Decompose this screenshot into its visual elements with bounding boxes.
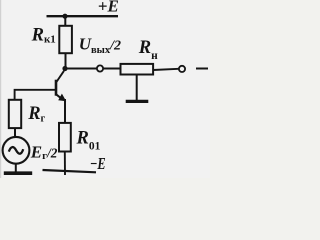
resistor Rn: [121, 64, 154, 75]
resistor Rg: [9, 100, 21, 128]
wire Rn to right terminal: [153, 69, 178, 70]
source tilde: [9, 147, 23, 154]
svg-text:+E: +E: [98, 0, 119, 15]
terminal right circle: [179, 66, 185, 72]
svg-text:−E: −E: [90, 154, 106, 173]
wire +E rail: [47, 15, 119, 17]
transistor Q1 emitter lead: [56, 95, 61, 99]
transistor Q1 collector lead: [56, 71, 64, 82]
source Eg circle: [3, 137, 30, 164]
wire terminal to Rn: [103, 68, 120, 70]
node collector dot: [62, 66, 67, 71]
node junction dot top: [62, 14, 67, 19]
wire -E rail: [43, 170, 97, 172]
wire Rn to ground: [136, 75, 138, 101]
wire Rg to source: [14, 128, 16, 137]
transistor Q1 base wire: [15, 90, 56, 100]
wire Rk1 to collector node: [65, 53, 67, 67]
resistor Rk1: [59, 26, 72, 53]
wire emitter down to R01: [64, 99, 66, 123]
transistor Q1 emitter arrowhead: [58, 94, 66, 102]
wire dashed continuation: [196, 68, 208, 70]
ground under Rn: [126, 100, 149, 103]
terminal output circle: [97, 65, 103, 71]
wire source to ground: [15, 164, 17, 172]
resistor R01: [59, 123, 71, 152]
wire collector node to output terminal: [67, 68, 97, 70]
ground under source: [4, 171, 32, 175]
transistor Q1 base bar: [55, 80, 58, 96]
wire R01 to -E rail: [64, 152, 66, 176]
wire rail to Rk1: [64, 16, 66, 26]
scan edge artifact left: [0, 0, 1, 178]
